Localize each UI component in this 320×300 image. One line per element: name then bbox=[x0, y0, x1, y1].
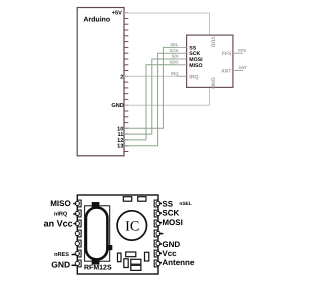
svg-text:nRES: nRES bbox=[54, 252, 69, 258]
pointer Vcc bbox=[159, 252, 162, 254]
svg-text:2: 2 bbox=[120, 74, 123, 80]
net label FFS right bbox=[238, 48, 246, 53]
smd R6 bbox=[145, 252, 149, 261]
svg-text:ANT: ANT bbox=[221, 69, 231, 75]
IC circle bbox=[117, 211, 146, 240]
pointer nIRQ bbox=[73, 213, 76, 215]
label Arduino bbox=[83, 16, 110, 24]
wire pin13 to SCK bbox=[124, 53, 177, 146]
pin label 13 bbox=[117, 144, 123, 150]
crystal pad top bbox=[92, 202, 100, 207]
pointer an Vcc bbox=[73, 223, 76, 225]
wire GND bbox=[124, 87, 210, 105]
label MISO bbox=[50, 199, 70, 208]
pointer MOSI bbox=[159, 222, 162, 224]
svg-text:+5V: +5V bbox=[112, 11, 122, 17]
svg-text:RFM12S: RFM12S bbox=[84, 265, 112, 272]
pin label 11 bbox=[117, 132, 123, 138]
svg-text:SCK: SCK bbox=[162, 209, 179, 218]
smd R1 bbox=[118, 253, 122, 262]
svg-text:nSEL: nSEL bbox=[179, 201, 191, 207]
label SS bbox=[162, 199, 173, 208]
svg-text:MISO: MISO bbox=[50, 199, 70, 208]
pointer GND left bbox=[72, 264, 77, 266]
crystal side pad bbox=[108, 245, 112, 250]
pad left 6 nRES bbox=[75, 250, 81, 257]
svg-text:GND: GND bbox=[111, 103, 123, 109]
smd R5 bbox=[131, 265, 141, 270]
wire pin12 to MISO bbox=[124, 65, 177, 140]
smd R2 bbox=[126, 252, 136, 257]
svg-text:ANT: ANT bbox=[238, 65, 247, 70]
net label ANT right bbox=[238, 65, 247, 70]
svg-text:SDO: SDO bbox=[169, 59, 179, 64]
label RFM12S bbox=[84, 265, 112, 272]
wire pin2 to IRQ bbox=[124, 75, 177, 77]
crystal pad bottom bbox=[92, 260, 100, 265]
pin stub MISO bbox=[177, 64, 187, 66]
pin label +5V bbox=[112, 11, 122, 17]
label GND left bbox=[51, 260, 70, 270]
label an Vcc bbox=[44, 219, 73, 229]
svg-text:SCK: SCK bbox=[170, 48, 179, 53]
label MOSI bbox=[162, 218, 182, 227]
pin name MOSI bbox=[189, 57, 203, 63]
pin label 10 bbox=[117, 126, 123, 132]
pin name ANT bbox=[221, 69, 231, 75]
svg-text:SDI: SDI bbox=[172, 54, 179, 59]
pointer MISO bbox=[73, 203, 76, 205]
pad right 2 SCK bbox=[154, 210, 160, 217]
pad right 7 Antenne bbox=[154, 260, 160, 267]
smd R4 bbox=[131, 259, 141, 264]
svg-text:SEL: SEL bbox=[170, 42, 179, 47]
svg-text:GND: GND bbox=[210, 77, 216, 89]
svg-text:MOSI: MOSI bbox=[162, 218, 182, 227]
label Vcc bbox=[162, 249, 177, 258]
svg-text:an Vcc: an Vcc bbox=[44, 219, 73, 229]
pointer Antenne bbox=[159, 262, 162, 264]
pointer pad4 bbox=[159, 233, 164, 235]
pointer nRES bbox=[72, 254, 77, 256]
pin name VDD rotated bbox=[210, 36, 216, 47]
wire pin11 to MOSI bbox=[124, 59, 177, 134]
pin name GND rotated bbox=[210, 77, 216, 89]
label Antenne bbox=[162, 258, 195, 267]
pad left 7 GND bbox=[75, 260, 81, 267]
pin name IRQ bbox=[189, 74, 198, 80]
svg-text:IC: IC bbox=[125, 219, 139, 235]
pad right 1 SS bbox=[154, 200, 160, 207]
smd R3 bbox=[124, 259, 128, 268]
pin label GND bbox=[111, 103, 123, 109]
crystal Q1 outline bbox=[85, 206, 110, 261]
pin stub ANT bbox=[233, 70, 243, 72]
label SCK bbox=[162, 209, 179, 218]
pin stub SS bbox=[177, 46, 187, 48]
module RFM12S body bbox=[77, 195, 158, 274]
pad right 5 GND bbox=[154, 240, 160, 247]
pad left 5 bbox=[75, 240, 81, 247]
pin stub SCK bbox=[177, 52, 187, 54]
pin name FFS bbox=[222, 51, 232, 57]
module Arduino body bbox=[77, 8, 124, 156]
svg-text:VDD: VDD bbox=[210, 36, 216, 47]
IC U1 RFM12 body bbox=[187, 35, 233, 87]
crystal Q1 can bbox=[86, 208, 108, 260]
svg-text:Arduino: Arduino bbox=[83, 16, 110, 24]
net label SEL bbox=[170, 42, 179, 47]
label nRES bbox=[54, 252, 69, 258]
svg-text:FFS: FFS bbox=[222, 51, 232, 57]
net label SDO bbox=[169, 59, 179, 64]
svg-text:Antenne: Antenne bbox=[162, 258, 195, 267]
pad right 6 Vcc bbox=[154, 250, 160, 257]
cap C2 top bbox=[138, 197, 146, 202]
pad left 4 bbox=[75, 230, 81, 237]
svg-text:Vcc: Vcc bbox=[162, 249, 177, 258]
pad left 1 MISO bbox=[75, 200, 81, 207]
svg-text:SS: SS bbox=[162, 199, 173, 208]
pointer SS bbox=[159, 202, 162, 204]
pin stub FFS bbox=[233, 52, 243, 54]
net label SCK bbox=[170, 48, 179, 53]
pointer GND right bbox=[159, 243, 162, 245]
svg-text:FFS: FFS bbox=[238, 48, 246, 53]
pin label 2 bbox=[120, 74, 123, 80]
pin name SCK bbox=[189, 51, 200, 57]
net label IRQ bbox=[171, 71, 179, 76]
svg-text:GND: GND bbox=[162, 240, 180, 249]
net label SDI bbox=[172, 54, 179, 59]
pointer SCK bbox=[159, 212, 162, 214]
IC label bbox=[125, 219, 139, 235]
svg-text:MISO: MISO bbox=[189, 63, 202, 69]
svg-text:nIRQ: nIRQ bbox=[54, 211, 68, 217]
cap C1 top bbox=[123, 197, 131, 202]
wire pin10 to SS bbox=[124, 47, 177, 128]
pad left 2 nIRQ bbox=[75, 210, 81, 217]
label nIRQ bbox=[54, 211, 68, 217]
label GND right bbox=[162, 240, 180, 249]
wire +5V to VDD bbox=[124, 13, 210, 35]
svg-text:13: 13 bbox=[117, 144, 123, 150]
svg-text:IRQ: IRQ bbox=[171, 71, 179, 76]
pin name SS bbox=[189, 45, 196, 51]
svg-text:IRQ: IRQ bbox=[189, 74, 198, 80]
pin stub MOSI bbox=[177, 58, 187, 60]
pad left 3 Vcc bbox=[75, 220, 81, 227]
pad right 4 bbox=[154, 230, 160, 237]
pin label 12 bbox=[117, 138, 123, 144]
pin stub IRQ bbox=[177, 75, 187, 77]
pad right 3 MOSI bbox=[154, 220, 160, 227]
Arduino pin ticks bbox=[124, 13, 128, 152]
label nSEL bbox=[179, 201, 191, 207]
pin name MISO bbox=[189, 63, 202, 69]
svg-text:GND: GND bbox=[51, 260, 70, 270]
